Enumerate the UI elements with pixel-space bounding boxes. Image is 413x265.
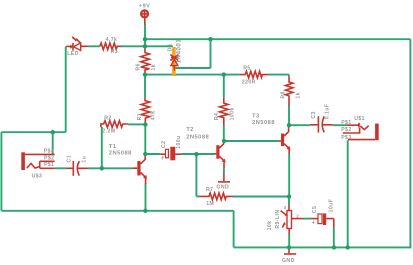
wire jack sleeve down to bus bbox=[347, 140, 349, 247]
wire R7 right to x289 bbox=[233, 196, 289, 198]
resistor R8 1k (vertical at x289) bbox=[280, 76, 301, 105]
svg-text:U$3: U$3 bbox=[32, 173, 43, 179]
svg-text:2N5088: 2N5088 bbox=[186, 134, 209, 140]
svg-text:R3: R3 bbox=[111, 49, 118, 55]
wire y=46 row LED to R3 to x145 to diode top bbox=[88, 45, 173, 47]
svg-text:LED: LED bbox=[67, 51, 79, 57]
svg-text:0.1uF: 0.1uF bbox=[325, 104, 331, 120]
svg-text:+: + bbox=[312, 221, 316, 227]
svg-text:R8: R8 bbox=[280, 91, 286, 98]
capacitor C2 100u bbox=[160, 135, 182, 162]
svg-text:R9-LIN: R9-LIN bbox=[275, 209, 281, 228]
capacitor C5 10uF bbox=[310, 199, 334, 228]
junction (289,125.2) bbox=[287, 123, 291, 127]
svg-text:+: + bbox=[161, 156, 165, 162]
resistor R4 100k (vertical at x224) bbox=[214, 97, 236, 125]
svg-text:1M: 1M bbox=[206, 201, 214, 207]
svg-text:1u: 1u bbox=[82, 156, 88, 163]
svg-text:C5: C5 bbox=[312, 206, 318, 213]
wire row y=125 T3 collector to C3 to jack bbox=[289, 124, 347, 126]
junction (223.8,74.6) bbox=[222, 72, 226, 76]
svg-text:R4: R4 bbox=[214, 113, 220, 120]
resistor R2 2.2M bbox=[101, 115, 128, 134]
diode D1 1N4001 bbox=[167, 39, 182, 76]
svg-text:R7: R7 bbox=[206, 187, 213, 193]
svg-text:100k: 100k bbox=[230, 107, 236, 120]
junction (52.7,132.2) bbox=[51, 130, 55, 134]
svg-text:GND: GND bbox=[282, 258, 295, 264]
wire column x145 segments between resistors bbox=[144, 75, 146, 154]
svg-text:T2: T2 bbox=[186, 127, 194, 133]
wire column x224 R4 to T2 collector junction bbox=[223, 75, 225, 142]
svg-text:2.2M: 2.2M bbox=[102, 129, 115, 135]
LED bbox=[66, 36, 88, 57]
wire T2 emitter mid segment bbox=[223, 168, 225, 174]
wire left column x1.4 bbox=[1, 132, 65, 211]
resistor R5 220R bbox=[240, 66, 269, 86]
svg-text:P$3: P$3 bbox=[341, 135, 351, 141]
svg-text:C3: C3 bbox=[311, 111, 317, 118]
potentiometer R9 10k bbox=[267, 205, 303, 234]
junction (334,247.4) bbox=[332, 245, 336, 249]
svg-text:R5: R5 bbox=[243, 66, 250, 72]
resistor R7 1M bbox=[200, 187, 233, 207]
svg-text:10uF: 10uF bbox=[329, 199, 335, 213]
wire column x196.4 down to R7 bbox=[196, 154, 200, 196]
svg-text:1k: 1k bbox=[296, 92, 302, 99]
svg-text:T3: T3 bbox=[252, 113, 260, 119]
svg-text:220R: 220R bbox=[242, 79, 256, 85]
junction (196.4,154.2) bbox=[194, 152, 198, 156]
resistor R1 47k (vertical at x145) bbox=[137, 98, 157, 124]
junction (145,46.3) bbox=[143, 44, 147, 48]
wire +9V vertical stub down to y=46 bbox=[144, 24, 146, 47]
svg-text:D1: D1 bbox=[167, 43, 173, 52]
wire x289 R6 bottom to T3 collector junction bbox=[288, 105, 290, 125]
capacitor C1 1u bbox=[66, 155, 88, 176]
wire mic to C1 row y=168.3 bbox=[55, 167, 133, 169]
svg-text:R6: R6 bbox=[136, 63, 142, 70]
junction (101.8,168.3) bbox=[100, 166, 104, 170]
jack U$1 bbox=[341, 116, 379, 141]
wire mic drop x52.7 bbox=[52, 132, 54, 154]
junction (145.4,210.8) bbox=[143, 209, 147, 213]
transistor T1 2N5088 bbox=[109, 144, 147, 184]
svg-text:R1: R1 bbox=[137, 113, 143, 120]
ground GND bottom bbox=[282, 247, 296, 264]
wire long row y=74.6 from x145 to R5 and on to x289 corner bbox=[145, 75, 289, 77]
svg-text:P$1: P$1 bbox=[341, 120, 351, 126]
wire row y=154 T1 collector to C2 to T2 base bbox=[145, 153, 214, 155]
svg-text:1N4001: 1N4001 bbox=[177, 39, 183, 63]
wire diode bottom to riser x210.5 up to y39 bbox=[174, 39, 210, 68]
svg-text:47k: 47k bbox=[151, 111, 157, 121]
junction node dots bbox=[51, 37, 350, 250]
svg-text:U$1: U$1 bbox=[354, 116, 365, 122]
junction (145,74.6) bbox=[143, 72, 147, 76]
transistor T2 2N5088 bbox=[186, 127, 225, 168]
svg-text:+9V: +9V bbox=[139, 4, 151, 10]
junction (289,247.4) bbox=[287, 245, 291, 249]
svg-text:P$2: P$2 bbox=[44, 156, 54, 162]
svg-text:GND: GND bbox=[216, 185, 229, 191]
ground GND at T2 emitter bbox=[216, 173, 230, 190]
svg-text:R2: R2 bbox=[104, 115, 111, 121]
mic jack U$3 bbox=[21, 148, 54, 179]
wire T3 base row y=141 bbox=[224, 140, 278, 142]
svg-text:C2: C2 bbox=[161, 141, 167, 148]
wire T1 emitter down to bus bbox=[145, 183, 147, 211]
svg-text:2N5088: 2N5088 bbox=[109, 150, 132, 156]
wire wiper to C5 bbox=[303, 218, 310, 220]
svg-text:P$1: P$1 bbox=[44, 162, 54, 168]
svg-text:C1: C1 bbox=[66, 155, 72, 162]
svg-text:10k: 10k bbox=[267, 221, 273, 231]
wire T3 emitter column down to y196.5 bbox=[288, 154, 290, 206]
capacitor C3 0.1uF bbox=[310, 104, 333, 133]
junction (145.3,154) bbox=[143, 152, 147, 156]
junction (210.5,39.2) bbox=[208, 37, 212, 41]
svg-text:1k: 1k bbox=[151, 64, 157, 71]
transistor T3 2N5088 bbox=[252, 113, 290, 154]
wire pot bottom to bus bbox=[288, 233, 290, 247]
svg-text:4.7k: 4.7k bbox=[106, 37, 118, 43]
wire R2 bend column x101.8 bbox=[101, 127, 103, 168]
junction (289,196.6) bbox=[287, 194, 291, 198]
junction (145,39.2) bbox=[143, 37, 147, 41]
wire R2 right to junction bbox=[128, 123, 144, 125]
svg-text:T1: T1 bbox=[109, 144, 117, 150]
junction (145.4,124.5) bbox=[143, 122, 147, 126]
wire LED cathode column x65.7 bbox=[65, 46, 67, 132]
wire +9V rail top row y=39 to right edge and down right side bbox=[145, 39, 410, 247]
wire C5 right down to bus bbox=[333, 227, 335, 247]
power +9V bbox=[139, 4, 151, 25]
svg-text:P$3: P$3 bbox=[44, 148, 54, 154]
resistor R3 4.7k bbox=[100, 37, 121, 55]
svg-text:P$2: P$2 bbox=[341, 127, 351, 133]
svg-text:100u: 100u bbox=[176, 135, 182, 148]
junction (224,141) bbox=[222, 139, 226, 143]
resistor R6 1k (vertical at x145 top) bbox=[136, 47, 158, 75]
svg-text:2N5088: 2N5088 bbox=[252, 120, 275, 126]
wire bottom bus y=247.4 bbox=[234, 246, 412, 248]
wire bus step x233.6 bbox=[1, 211, 233, 248]
junction (347.7,247.4) bbox=[346, 245, 350, 249]
